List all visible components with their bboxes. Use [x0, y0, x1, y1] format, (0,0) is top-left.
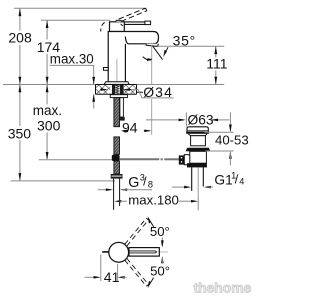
body circle top view — [109, 242, 129, 262]
pop-up rod below deck — [120, 98, 124, 117]
aerator outlet extension line — [157, 45, 224, 47]
svg-text:35°: 35° — [173, 32, 196, 48]
dashed lever in raised position — [119, 8, 146, 19]
body right wall — [124, 44, 126, 82]
svg-text:/: / — [143, 174, 147, 188]
waste neck taper — [188, 134, 207, 136]
dashed swing arc left of cartridge — [101, 22, 105, 31]
svg-text:208: 208 — [8, 30, 32, 46]
view centerline — [128, 251, 168, 253]
basin edge step right of deck — [137, 85, 144, 93]
lever width arrows at tip — [161, 238, 163, 246]
dashed lever position -50deg — [125, 260, 147, 286]
svg-text:/: / — [235, 172, 239, 186]
svg-text:max.180: max.180 — [128, 192, 179, 207]
deck surface extension line left — [3, 84, 96, 86]
dimension 41 — [100, 255, 102, 282]
dimension 208 vertical line — [19, 8, 21, 84]
35deg leader arrow — [165, 47, 168, 52]
waste neck — [191, 136, 206, 146]
dimension 174 vertical line — [46, 20, 48, 84]
waste locknut — [186, 148, 211, 152]
dimension 40-53 — [229, 112, 231, 130]
dashed lever position +50deg — [125, 218, 147, 244]
aerator axis line — [151, 45, 153, 84]
cartridge housing — [110, 22, 125, 32]
supply connector tube — [113, 179, 115, 210]
threaded shank through deck — [112, 85, 123, 95]
dashed swing arc inside cartridge — [121, 24, 125, 28]
lever back tip — [102, 251, 108, 253]
tilt arc arrow — [143, 57, 152, 60]
solid lever handle — [124, 22, 144, 25]
svg-text:50°: 50° — [150, 264, 170, 279]
waste plug dome — [187, 127, 208, 132]
faucet body and spout outline — [108, 32, 158, 82]
svg-text:Ø63: Ø63 — [188, 112, 214, 127]
base flange — [104, 82, 129, 85]
waste tailpiece G1 1/4 — [191, 167, 193, 191]
max.30 lower arrow below deck — [93, 94, 95, 108]
svg-text:111: 111 — [206, 56, 227, 72]
hose/rod junction block — [112, 155, 120, 161]
tilted stream line 35deg — [153, 46, 163, 60]
extension line top of handle (174 ref) — [41, 19, 111, 21]
dimension 350 vertical line — [19, 85, 21, 181]
svg-text:8: 8 — [148, 179, 153, 189]
pop-up pull rod knob — [104, 68, 109, 71]
dimension 111 — [215, 46, 217, 84]
extension line top of lifted lever (208 ref) — [14, 7, 147, 9]
svg-text:94: 94 — [122, 119, 138, 135]
pop-up rod end cap — [118, 117, 125, 121]
thread marks — [116, 86, 119, 95]
flexible supply hose segment 2 — [114, 137, 120, 154]
dimension max.180 — [197, 198, 199, 211]
dimension max.300 arrows — [46, 85, 49, 93]
svg-text:41: 41 — [104, 269, 120, 285]
svg-text:300: 300 — [37, 117, 61, 133]
reference line bottom of hose connector (350 ref) — [11, 180, 115, 182]
svg-text:4: 4 — [239, 177, 244, 187]
label G1 1/4 with arrows — [172, 186, 187, 188]
horizontal pop-up linkage rod — [120, 158, 160, 160]
deck surface extension line right — [137, 84, 225, 86]
svg-text:thehome: thehome — [194, 280, 252, 296]
flexible supply hose segment 1 — [114, 98, 120, 127]
svg-text:G1: G1 — [214, 172, 232, 187]
svg-text:max.: max. — [33, 103, 62, 118]
mounting nut washer — [110, 95, 127, 98]
ball joint socket — [184, 155, 192, 165]
lever slot — [130, 251, 157, 253]
tailpiece centerline — [197, 167, 199, 197]
dimension 208 arrows — [19, 8, 22, 16]
waste body — [190, 151, 207, 163]
label diameter 34 with leader — [100, 89, 106, 91]
dimension 350 arrows — [19, 85, 22, 93]
mounting deck cross-section with hatch — [96, 85, 110, 94]
dimension 174 arrows — [46, 20, 49, 28]
svg-text:G: G — [128, 175, 139, 191]
waste bottom band — [187, 163, 207, 167]
lever arm top view — [129, 248, 159, 257]
svg-text:40-53: 40-53 — [215, 133, 249, 148]
svg-text:350: 350 — [8, 126, 32, 142]
centerline of faucet — [116, 56, 118, 96]
label G3/8 with arrows — [98, 189, 111, 191]
aerator under spout tip — [146, 44, 158, 47]
G3/8 connector nut — [111, 174, 123, 179]
svg-text:Ø34: Ø34 — [143, 84, 173, 100]
flexible supply hose segment 3 — [114, 161, 120, 174]
rod clamp at waste — [179, 155, 185, 164]
lever pivot bump — [116, 20, 122, 21]
dimension max.300 vertical line — [46, 85, 48, 160]
50deg upper leader arrow — [151, 222, 154, 227]
dimension diameter 63 — [146, 119, 184, 121]
reference line hose/rod level (max.300 ref) — [39, 159, 112, 161]
dimension 94 — [123, 130, 128, 132]
50deg lower leader arrow — [151, 278, 154, 283]
waste flange band — [186, 131, 209, 133]
svg-text:max.30: max.30 — [50, 52, 94, 67]
svg-text:50°: 50° — [150, 224, 170, 239]
